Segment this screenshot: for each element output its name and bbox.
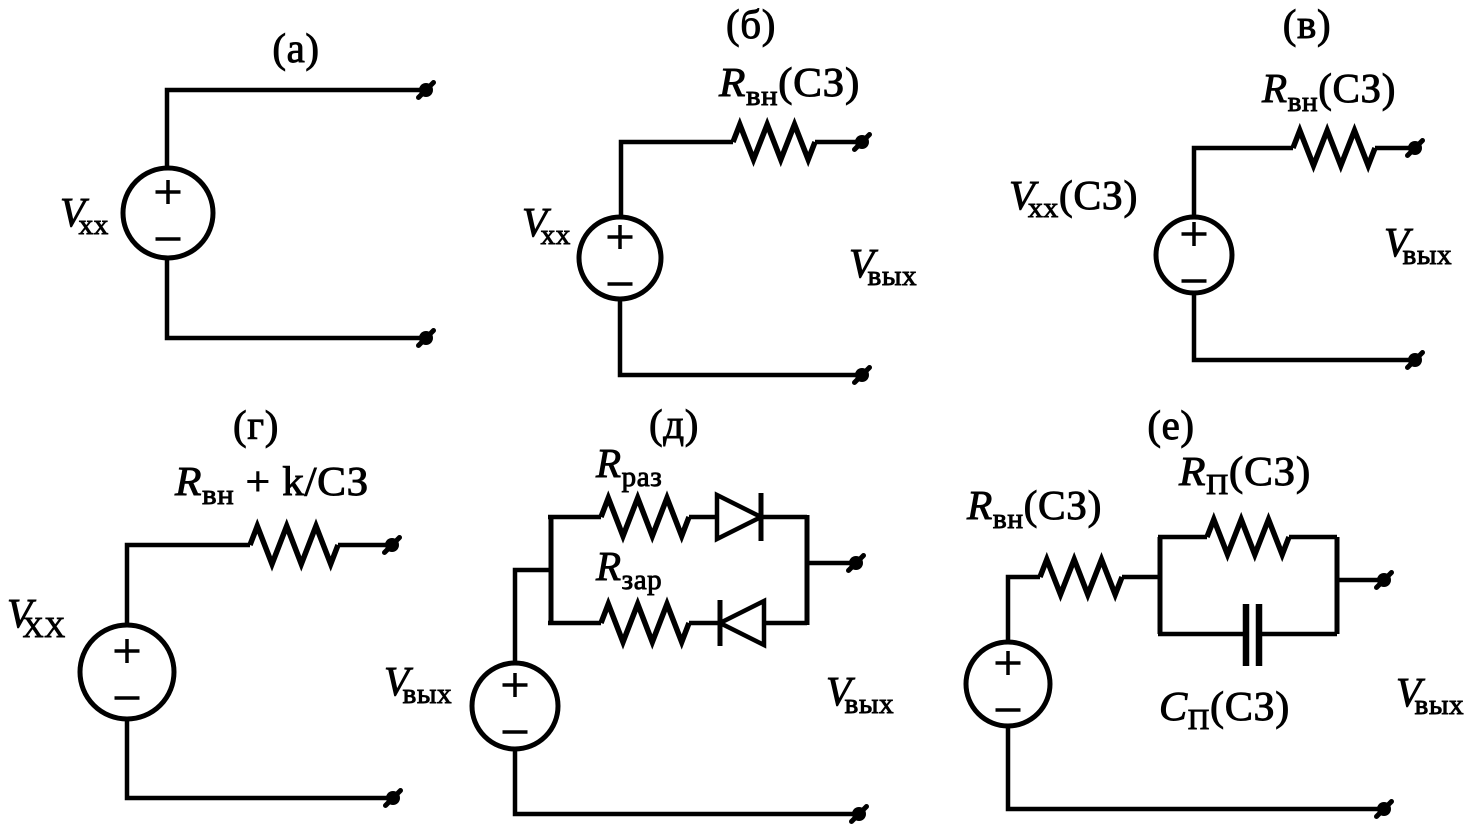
svg-text:Vвых: Vвых (1384, 219, 1452, 271)
wire to terminal (338, 543, 388, 548)
svg-text:CП(СЗ): CП(СЗ) (1159, 683, 1290, 736)
wire bottom (1194, 294, 1411, 360)
svg-text:Vхх: Vхх (60, 189, 109, 241)
left bracket vertical (549, 517, 554, 623)
wire to diode (689, 515, 717, 520)
wire top (127, 545, 250, 626)
svg-text:(г): (г) (233, 402, 279, 448)
wire diode to right bracket (761, 515, 807, 520)
svg-text:Rвн(СЗ): Rвн(СЗ) (1261, 65, 1396, 118)
resistor R_раз (601, 498, 689, 536)
wire top (167, 90, 424, 170)
svg-text:Vвых: Vвых (826, 668, 894, 720)
wire to right bracket (1289, 535, 1337, 540)
terminal bottom right (852, 807, 867, 822)
resistor R_П (1207, 520, 1289, 555)
wire from source to resistor (1008, 577, 1040, 643)
svg-text:Vхх: Vхх (522, 199, 571, 251)
terminal bottom right (855, 368, 870, 383)
svg-text:(в): (в) (1283, 1, 1331, 47)
source circle (472, 663, 558, 749)
svg-text:(б): (б) (726, 1, 776, 47)
output stub (807, 561, 851, 566)
terminal bottom right (386, 791, 401, 806)
plus minus (1182, 222, 1207, 281)
svg-text:Vвых: Vвых (849, 240, 917, 292)
svg-text:Vхх(СЗ): Vхх(СЗ) (1009, 172, 1138, 224)
svg-text:Vвых: Vвых (384, 658, 452, 710)
wire to terminal (815, 140, 857, 145)
wire bottom (1008, 726, 1379, 809)
svg-text:(а): (а) (272, 25, 319, 71)
svg-text:Vвых: Vвых (1396, 669, 1464, 721)
svg-text:(е): (е) (1147, 402, 1194, 448)
wire to terminal (1375, 146, 1411, 151)
source circle (80, 625, 174, 719)
svg-text:Rвн + k/СЗ: Rвн + k/СЗ (174, 458, 369, 511)
svg-text:RП(СЗ): RП(СЗ) (1178, 448, 1311, 501)
plus minus (156, 180, 181, 239)
terminal top right (385, 538, 400, 553)
top branch wire (548, 515, 601, 520)
wire bottom (515, 749, 855, 814)
diode D1 (right pointing) (717, 495, 761, 539)
resistor R_вн (1293, 131, 1375, 166)
plus minus (503, 673, 528, 732)
resistor R_вн (1040, 560, 1122, 595)
resistor (250, 526, 338, 564)
source V_xx circle (123, 168, 213, 258)
svg-text:(д): (д) (649, 401, 699, 447)
terminal top right (419, 83, 434, 98)
terminal top right (855, 135, 870, 150)
capacitor C_П plates (1243, 604, 1250, 666)
wire to parallel block (1122, 575, 1160, 580)
wire to diode (689, 621, 720, 626)
left bracket (1158, 537, 1163, 634)
source circle (1156, 217, 1232, 293)
svg-text:Rраз: Rраз (595, 440, 662, 493)
terminal right (1377, 573, 1392, 588)
wire top (621, 142, 733, 217)
wire top (1194, 148, 1293, 217)
diode D2 (left pointing) (720, 601, 764, 645)
resistor R_вн (733, 125, 815, 160)
svg-text:Rвн(СЗ): Rвн(СЗ) (966, 482, 1102, 535)
bottom branch left wire (1158, 632, 1243, 637)
output stub (1337, 578, 1379, 583)
wire bottom (127, 719, 389, 798)
terminal bottom right (1377, 802, 1392, 817)
terminal middle right (849, 556, 864, 571)
source circle (966, 642, 1050, 726)
terminal bottom right (419, 331, 434, 346)
resistor R_зар (601, 604, 689, 642)
plus minus (608, 225, 633, 284)
svg-text:Rзар: Rзар (595, 543, 662, 596)
wire bottom (620, 299, 857, 375)
bottom branch wire (548, 621, 601, 626)
top branch wire (1158, 535, 1207, 540)
terminal bottom right (1408, 353, 1423, 368)
wire bottom (167, 257, 424, 338)
plus minus (115, 639, 140, 698)
wire to right bracket (764, 621, 807, 626)
plus minus (996, 651, 1021, 710)
svg-text:Rвн(СЗ): Rвн(СЗ) (718, 59, 860, 112)
svg-text:VХХ: VХХ (7, 590, 66, 644)
source circle (579, 217, 661, 299)
right bracket (1335, 537, 1340, 634)
terminal top right (1408, 141, 1423, 156)
right bracket vertical (805, 515, 810, 625)
left stub to source (515, 570, 551, 664)
bottom branch right wire (1262, 632, 1337, 637)
